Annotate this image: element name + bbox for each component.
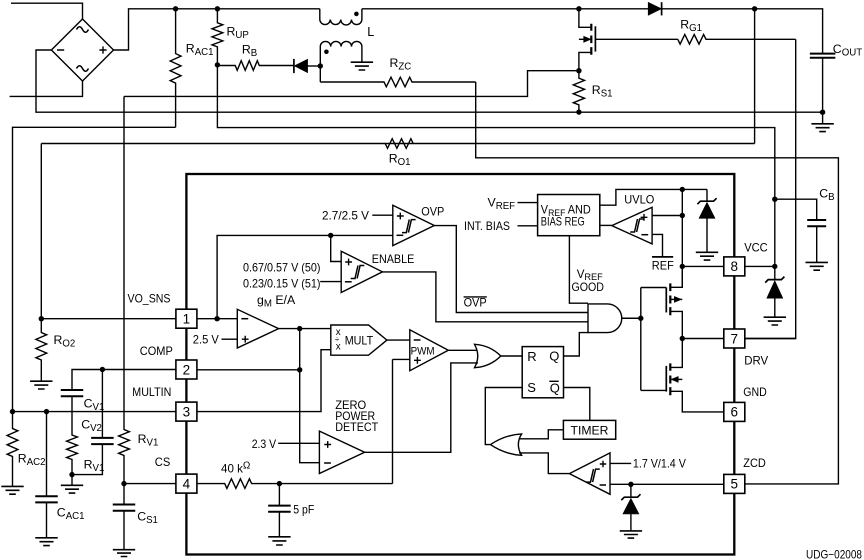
svg-text:UVLO: UVLO	[624, 192, 654, 206]
ground at compensation network	[71, 475, 73, 485]
ground at aux winding	[351, 62, 373, 70]
svg-text:REF: REF	[652, 259, 674, 273]
svg-text:5: 5	[731, 477, 739, 492]
node driver midpoint DRV	[680, 336, 685, 341]
svg-text:TIMER: TIMER	[571, 423, 609, 437]
pin 7 DRV	[724, 329, 745, 348]
ground at CAC1	[35, 538, 57, 546]
svg-text:DETECT: DETECT	[335, 421, 378, 434]
wire latch S from OR gate	[485, 388, 522, 445]
node OVP line ENABLE tap	[328, 233, 333, 238]
wire top rail after inductor to boost diode	[362, 8, 648, 10]
transistor driver lower NMOS	[665, 366, 667, 392]
svg-text:Q: Q	[549, 348, 559, 363]
resistor RZC	[320, 77, 475, 87]
svg-text:5 pF: 5 pF	[293, 504, 314, 517]
comparator ZCD restart	[569, 453, 610, 494]
ground at CS1	[113, 550, 135, 557]
node pin1 OVP tap	[214, 316, 219, 321]
svg-text:2.5 V: 2.5 V	[193, 334, 219, 347]
resistor RG1	[678, 35, 796, 45]
wire VREF GOOD to AND gate	[569, 236, 588, 304]
wire RUP junction down to VCC feed line	[217, 65, 774, 199]
block VREF AND BIAS REG	[538, 195, 600, 236]
OR gate reset	[475, 344, 501, 367]
wire diode to aux winding node	[308, 65, 321, 67]
wire 2.3V to ZPD plus	[278, 442, 319, 444]
wire pin 7 internal lead	[682, 338, 724, 340]
op-amp gm E/A	[237, 309, 278, 348]
wire CS to pin 4	[124, 483, 176, 485]
node driver input	[638, 316, 643, 321]
node rectified rail at RUP	[215, 6, 220, 11]
svg-text:GND: GND	[743, 386, 767, 399]
svg-text:OVP: OVP	[421, 205, 444, 219]
wire driver gate column	[641, 288, 667, 391]
capacitor CAC1	[46, 412, 48, 496]
pin 4 CS	[176, 474, 197, 493]
OR gate set (left pointing)	[490, 434, 521, 455]
wire CS filtered to PWM column	[279, 483, 392, 485]
wire AC input line bottom	[10, 81, 83, 96]
node aux winding junction	[318, 63, 323, 68]
svg-text:2.3 V: 2.3 V	[252, 438, 277, 451]
svg-text:x: x	[336, 341, 341, 352]
node VCC internal tap	[680, 187, 685, 192]
node internal CS filter	[277, 481, 282, 486]
node compensation ground junction	[69, 472, 74, 477]
resistor RB	[217, 61, 293, 71]
node UVLO plus tap	[680, 213, 685, 218]
svg-text:DRV: DRV	[744, 354, 768, 367]
resistor RAC1	[170, 9, 181, 128]
node RS1 bottom on ground bus	[576, 109, 581, 114]
capacitor CV2	[101, 370, 103, 438]
svg-text:ENABLE: ENABLE	[372, 252, 415, 266]
zener diode at VCC	[765, 277, 784, 283]
wire INT BIAS into block	[518, 225, 538, 227]
wire pin 1 to gm amp inverting input	[197, 318, 237, 320]
wire VO_SNS to pin 1	[41, 318, 176, 320]
AND gate driver logic	[588, 304, 622, 333]
wire VCC line down to pin 8	[774, 199, 776, 279]
svg-text:R: R	[527, 349, 536, 364]
IC boundary box	[186, 174, 734, 555]
node MULTIN RAC2 tap	[10, 409, 15, 414]
wire top rail after diode to COUT	[662, 9, 823, 53]
svg-text:Q: Q	[550, 380, 560, 395]
wire OVP output to AND gate	[434, 226, 588, 313]
comparator OVP	[393, 205, 435, 245]
wire AC input line top	[11, 3, 83, 19]
capacitor CS1	[123, 484, 125, 505]
wire UVLO minus to REF	[652, 234, 662, 257]
transistor driver upper PMOS	[665, 288, 667, 313]
wire VO_SNS drop	[40, 144, 42, 319]
node gm output COMP node	[297, 326, 302, 331]
wire pin 7 external lead	[745, 338, 796, 340]
node RS1 top	[576, 68, 581, 73]
wire TIMER input from OR gate	[519, 430, 563, 439]
svg-text:7: 7	[731, 331, 739, 346]
svg-text:0.23/0.15 V (51): 0.23/0.15 V (51)	[243, 278, 321, 291]
svg-text:4: 4	[183, 476, 191, 491]
pin 1 VO_SNS	[176, 309, 197, 328]
svg-text:8: 8	[731, 259, 739, 274]
ground at ZCD zener	[620, 531, 642, 538]
block TIMER	[563, 420, 615, 439]
comparator UVLO	[612, 207, 652, 244]
node boost output at RO1 tap	[752, 6, 757, 11]
wire bridge negative to ground bus	[36, 50, 823, 112]
wire threshold to ENABLE minus	[320, 281, 341, 283]
node ZCD clamp tap	[628, 482, 633, 487]
svg-text:COMP: COMP	[140, 345, 173, 358]
node MOSFET drain on rail	[576, 6, 581, 11]
wire 2.7/2.5V to OVP plus	[372, 214, 393, 216]
node VCC pin 8 tap	[772, 264, 777, 269]
wire UVLO output to bias block	[600, 224, 612, 226]
ground at VCC zener	[764, 317, 786, 325]
capacitor CV1	[61, 390, 84, 396]
ground at 5pF	[268, 537, 290, 545]
inductor L primary winding	[320, 9, 362, 25]
resistor RUP	[212, 9, 223, 65]
inductor L aux winding	[320, 41, 362, 66]
comparator ENABLE	[341, 251, 382, 292]
ground at CB	[806, 262, 828, 270]
terminal REF	[652, 256, 673, 258]
wire latch Qbar to TIMER	[564, 388, 590, 421]
node VCC pin8 internal	[680, 264, 685, 269]
wire COMP pin 2 to compensation network	[72, 370, 176, 390]
bridge rectifier	[51, 19, 113, 81]
svg-text:S: S	[527, 380, 536, 395]
ground at RO2	[30, 381, 52, 389]
wire RZC to ZCD pin line	[476, 82, 839, 484]
wire bias block to VCC rail tap	[600, 189, 707, 205]
node CS pin 4 junction	[121, 481, 126, 486]
node VO_SNS divider	[39, 316, 44, 321]
wire ENABLE output to AND gate	[382, 272, 588, 322]
svg-text:MULT: MULT	[345, 334, 374, 347]
wire ZPD output to OR gate	[365, 363, 478, 452]
wire VCC internal column	[681, 189, 683, 287]
wire latch Q to AND gate	[564, 333, 589, 356]
capacitor CB	[775, 199, 817, 220]
multiplier MULT block	[331, 325, 387, 355]
wire pin1 tap up to OVP input line	[217, 235, 393, 318]
wire PWM output to OR gate	[448, 349, 478, 351]
boost diode	[648, 3, 661, 16]
wire ZCD plus to threshold label	[610, 462, 631, 464]
wire gm output	[279, 328, 331, 330]
wire RO1 line to boost output	[754, 9, 756, 144]
diode DB	[293, 59, 295, 73]
wire UVLO plus to VCC tap	[652, 215, 682, 217]
wire CS sense line to RS1 top	[124, 71, 579, 97]
resistor RS1	[573, 71, 584, 112]
svg-text:MULTIN: MULTIN	[132, 386, 171, 399]
svg-text:0.67/0.57 V (50): 0.67/0.57 V (50)	[243, 261, 321, 274]
wire VREF into block	[518, 202, 538, 204]
svg-text:2: 2	[183, 362, 191, 377]
resistor RO1 on VO sense line	[41, 139, 754, 149]
svg-text:3: 3	[183, 404, 191, 419]
ground at internal zener	[696, 252, 718, 260]
svg-text:BIAS REG: BIAS REG	[541, 216, 585, 229]
svg-text:1: 1	[183, 312, 191, 327]
svg-text:VO_SNS: VO_SNS	[128, 293, 171, 306]
comparator PWM	[410, 330, 449, 371]
ground at COUT	[822, 112, 824, 123]
svg-text:GOOD: GOOD	[572, 281, 605, 294]
node RUP-RB junction	[215, 62, 220, 67]
node rectified rail at RAC1	[173, 6, 178, 11]
svg-text:L: L	[367, 25, 374, 39]
wire MULT output to PWM	[387, 339, 410, 341]
power MOSFET Q1	[590, 24, 592, 55]
wire MULTIN pin 3 line	[13, 411, 176, 413]
svg-text:2.7/2.5 V: 2.7/2.5 V	[322, 210, 369, 223]
svg-text:1.7 V/1.4 V: 1.7 V/1.4 V	[633, 458, 686, 471]
node VCC line CB tap	[772, 197, 777, 202]
svg-text:UDG−02008: UDG−02008	[806, 549, 862, 560]
wire bridge positive to top rail	[114, 9, 320, 50]
pin 6 GND	[724, 402, 745, 421]
node COUT bottom on ground bus	[820, 110, 825, 115]
wire pin 8 internal lead	[682, 265, 724, 267]
svg-text:PWM: PWM	[411, 345, 435, 357]
capacitor COUT	[810, 54, 836, 58]
latch RS flip-flop	[522, 347, 563, 398]
wire OR to latch R	[501, 355, 522, 357]
wire Q1 gate lead	[595, 38, 677, 40]
wire tap to ENABLE plus input	[331, 235, 342, 261]
resistor RV1 compensation	[67, 396, 78, 474]
pin 8 VCC	[724, 257, 745, 276]
resistor RV1 current sense filter	[119, 96, 130, 483]
wire RG1 to DRV pin	[745, 39, 796, 338]
wire ZCD minus to pin 5	[610, 483, 724, 485]
wire pin 3 to MULT input	[197, 350, 331, 412]
pin 5 ZCD	[724, 474, 745, 493]
svg-text:INT. BIAS: INT. BIAS	[464, 220, 510, 233]
svg-text:CS: CS	[155, 456, 171, 469]
resistor RAC2	[7, 412, 18, 486]
wire AND output to driver	[622, 317, 641, 319]
resistor RO2	[36, 319, 47, 381]
ground at RAC2	[1, 486, 23, 494]
capacitor 5pF	[278, 484, 280, 506]
node COMP node pin 2 tap	[297, 367, 302, 372]
pin 3 MULTIN	[176, 402, 197, 421]
wire RAC1 bottom to RAC2 column	[13, 127, 176, 411]
svg-text:6: 6	[731, 405, 739, 420]
svg-text:VCC: VCC	[744, 242, 768, 255]
pin 2 COMP	[176, 360, 197, 379]
wire CS signal to PWM plus	[393, 359, 410, 483]
zener diode at ZCD	[630, 484, 632, 496]
zener diode internal clamp	[706, 189, 708, 200]
wire pin 2 to COMP node	[197, 369, 300, 371]
node MULTIN CAC1 tap	[44, 409, 49, 414]
resistor 40k internal CS filter	[197, 479, 280, 489]
svg-text:ZCD: ZCD	[743, 457, 766, 470]
wire 2.5V to gm plus input	[222, 338, 238, 340]
wire pin 8 external lead	[745, 265, 775, 267]
wire ZCD comp output to OR gate	[519, 453, 569, 474]
node COMP CV2 tap	[100, 367, 105, 372]
wire COMP node down to zero power detect	[300, 329, 320, 463]
comparator ZERO POWER DETECT	[319, 431, 364, 473]
